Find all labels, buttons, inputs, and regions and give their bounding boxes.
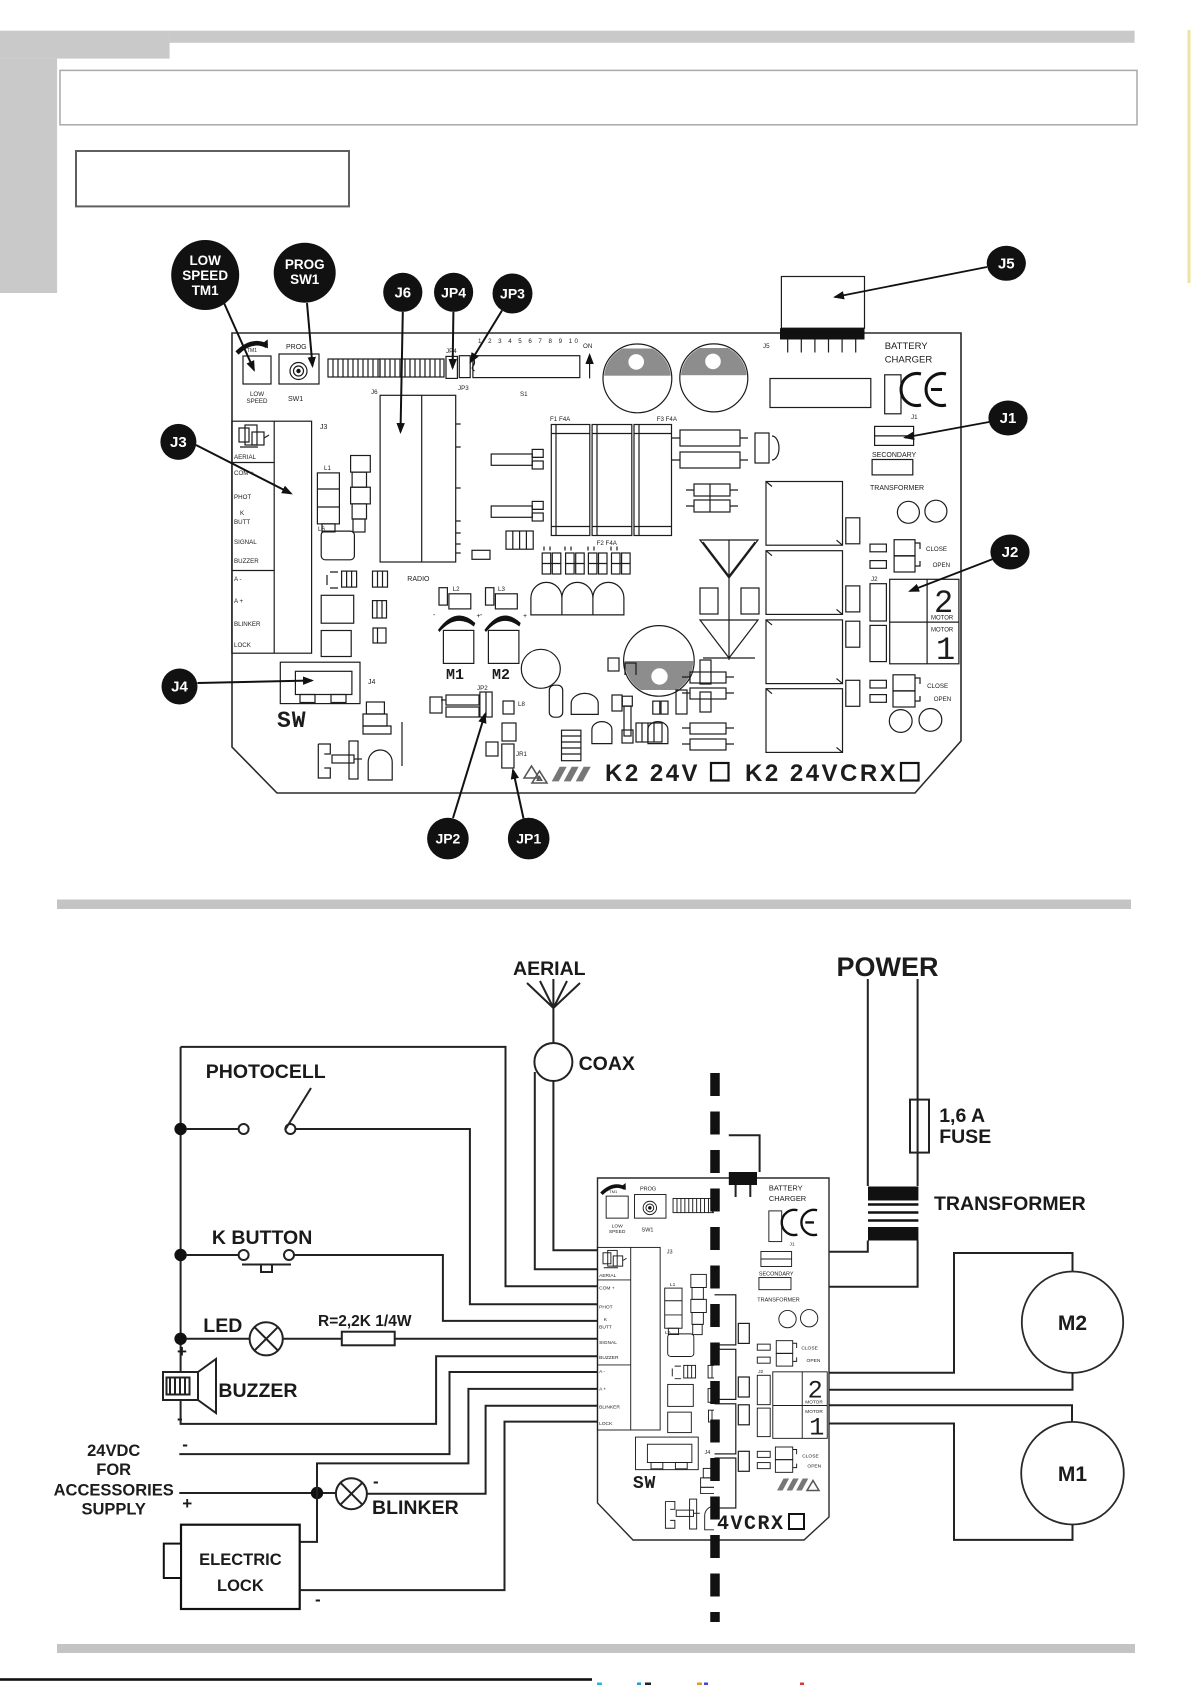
wire resistor to SIGNAL [395, 1338, 599, 1340]
mosfet M1 pad [443, 630, 473, 663]
svg-text:JP4: JP4 [446, 348, 457, 355]
page header grey bar [170, 31, 1135, 43]
wire k button to K BUTT [294, 1255, 599, 1321]
svg-text:MOTOR: MOTOR [931, 616, 954, 622]
wire transformer to PCB [830, 1241, 918, 1287]
svg-text:+: + [523, 613, 527, 620]
mini J5 connector [729, 1172, 757, 1185]
svg-text:AERIAL: AERIAL [513, 958, 586, 980]
small pad [503, 701, 514, 714]
big triangle heatsink [700, 540, 759, 660]
svg-text:PHOT: PHOT [234, 494, 251, 501]
node junction dot [311, 1487, 323, 1499]
svg-text:CLOSE: CLOSE [926, 546, 947, 553]
capacitor stack C [351, 456, 371, 533]
svg-text:K2 24V: K2 24V [605, 760, 700, 787]
svg-text:BUTT: BUTT [234, 519, 250, 526]
callout JP4 [434, 273, 473, 368]
svg-text:J5: J5 [763, 343, 770, 350]
svg-text:ACCESSORIES: ACCESSORIES [54, 1482, 174, 1500]
svg-text:L3: L3 [498, 586, 505, 593]
wire lock to LOCK terminal [300, 1422, 599, 1591]
polarity swoosh 1 [438, 615, 475, 632]
fuse F2 [592, 425, 632, 536]
callout J3 [160, 424, 291, 494]
svg-text:M1: M1 [1058, 1463, 1087, 1486]
svg-text:COAX: COAX [579, 1053, 635, 1075]
svg-text:L8: L8 [518, 701, 525, 708]
title box 2 [76, 151, 349, 206]
node dot photocell [174, 1123, 186, 1135]
relay RL4 [766, 551, 843, 615]
callout LOW SPEED TM1 [171, 240, 254, 370]
svg-text:-: - [373, 1472, 379, 1491]
svg-text:TRANSFORMER: TRANSFORMER [870, 485, 924, 492]
polarity swoosh 2 [484, 615, 520, 632]
24VDC supply labels [54, 1442, 174, 1519]
page header grey block [0, 31, 170, 59]
svg-text:M1: M1 [446, 667, 464, 684]
wire junction to A+ [317, 1389, 599, 1493]
relay jumpers [846, 518, 860, 707]
footer rule [0, 1678, 592, 1681]
jumper JP3 [459, 356, 470, 378]
svg-text:L6: L6 [318, 526, 325, 533]
svg-text:BUZZER: BUZZER [218, 1380, 297, 1402]
header J6 pins (left part) [328, 359, 380, 377]
svg-text:FUSE: FUSE [939, 1126, 991, 1148]
J3 silk labels [234, 454, 261, 649]
svg-text:SIGNAL: SIGNAL [234, 539, 257, 546]
svg-text:A -: A - [234, 576, 242, 583]
close/open jumper top [870, 540, 920, 572]
svg-text:S1: S1 [520, 391, 528, 398]
svg-text:J2: J2 [1002, 544, 1019, 561]
svg-text:OPEN: OPEN [934, 696, 952, 703]
divider bar bottom [57, 1644, 1135, 1653]
svg-text:FOR: FOR [96, 1461, 131, 1479]
callout JP3 [471, 274, 533, 363]
svg-text:LOCK: LOCK [234, 642, 252, 649]
svg-text:J5: J5 [998, 255, 1015, 272]
misc parts right of buzzer [592, 658, 711, 744]
left sidebar grey [0, 59, 57, 293]
K2 24V silk text [605, 760, 919, 787]
coax connector [534, 1043, 572, 1081]
callout J1 [905, 401, 1028, 438]
svg-text:TM1: TM1 [192, 283, 219, 298]
svg-text:JP3: JP3 [458, 385, 469, 392]
svg-text:K BUTTON: K BUTTON [212, 1227, 312, 1249]
svg-text:SW: SW [277, 708, 307, 734]
svg-text:SW1: SW1 [290, 272, 320, 287]
node dot k button [174, 1249, 186, 1261]
mini relay jumpers [738, 1323, 749, 1471]
mini board left half [597, 1182, 731, 1530]
svg-text:+: + [182, 1494, 192, 1513]
divider bar mid [57, 900, 1131, 910]
footer link text (clipped at page bottom) [597, 1683, 804, 1685]
svg-text:K2 24VCRX: K2 24VCRX [745, 760, 898, 787]
callout J5 [835, 246, 1026, 297]
svg-text:TRANSFORMER: TRANSFORMER [934, 1193, 1086, 1215]
svg-text:J1: J1 [911, 414, 918, 421]
close/open jumper bottom [870, 675, 920, 707]
coil stack [562, 730, 581, 761]
callout PROG SW1 [274, 243, 336, 366]
svg-text:PROG: PROG [285, 257, 325, 272]
wire photocell to PHOT [296, 1129, 599, 1304]
callout J6 [383, 273, 422, 432]
svg-text:M2: M2 [492, 667, 510, 684]
svg-text:SPEED: SPEED [247, 398, 269, 405]
svg-text:J1: J1 [1000, 410, 1017, 427]
M2 motor [829, 1253, 1073, 1373]
PCB board outline [232, 333, 961, 793]
M1 motor [829, 1405, 1072, 1422]
svg-text:R=2,2K 1/4W: R=2,2K 1/4W [318, 1313, 412, 1330]
k button switch [186, 1254, 238, 1256]
svg-text:SUPPLY: SUPPLY [81, 1501, 146, 1519]
IC U5 [321, 631, 351, 657]
callout JP2 [427, 714, 485, 859]
svg-text:F2 F4A: F2 F4A [597, 540, 618, 547]
svg-text:ELECTRIC: ELECTRIC [199, 1551, 282, 1569]
CE pad [885, 375, 901, 414]
left supply bus [180, 1047, 182, 1372]
svg-text:PHOTOCELL: PHOTOCELL [206, 1061, 326, 1083]
trimmer TM1 arc arrow [237, 343, 267, 353]
dome [571, 693, 598, 714]
top bus wire to COM+ [181, 1047, 599, 1286]
svg-text:J3: J3 [170, 434, 187, 451]
svg-text:JP3: JP3 [500, 286, 525, 302]
hatched pads [342, 571, 388, 643]
svg-text:-: - [182, 1435, 188, 1454]
svg-text:JR1: JR1 [516, 751, 528, 758]
power line L [867, 979, 869, 1186]
svg-text:4VCRX: 4VCRX [717, 1513, 785, 1536]
LED lamp [186, 1338, 250, 1340]
svg-text:BLINKER: BLINKER [234, 621, 261, 628]
wire blinker to BLINKER terminal [367, 1406, 599, 1494]
buzzer circle [521, 649, 560, 688]
callout JP1 [508, 770, 550, 859]
svg-text:ON: ON [583, 343, 592, 350]
svg-text:JP1: JP1 [516, 831, 541, 847]
mount holes bottom [889, 710, 912, 733]
callout J2 [910, 535, 1030, 592]
hatched block [506, 531, 533, 549]
svg-text:SW1: SW1 [288, 396, 303, 403]
screw terminal 2 [491, 501, 543, 521]
svg-text:J2: J2 [871, 576, 878, 583]
svg-text:J3: J3 [320, 424, 328, 431]
fuse F 1,6A [910, 1100, 929, 1153]
warning triangles logo [524, 766, 547, 783]
transformer T1 [868, 1187, 918, 1241]
svg-text:RADIO: RADIO [407, 576, 430, 583]
relay RL2 [766, 689, 843, 753]
svg-text:LOW: LOW [189, 253, 221, 268]
svg-text:M2: M2 [1058, 1312, 1087, 1335]
blinker lamp [336, 1478, 367, 1509]
svg-text:J6: J6 [394, 284, 411, 301]
relay RL1 [766, 620, 843, 684]
svg-text:1,6 A: 1,6 A [939, 1105, 985, 1127]
mount holes [897, 501, 919, 523]
svg-text:SPEED: SPEED [182, 268, 228, 283]
small pad [472, 550, 490, 559]
mini board outline [598, 1178, 830, 1540]
svg-text:LOW: LOW [250, 391, 264, 398]
relay RL3 [766, 482, 843, 546]
wire buzzer to BUZZER terminal [181, 1356, 599, 1424]
svg-text:LOCK: LOCK [217, 1577, 264, 1595]
svg-text:AERIAL: AERIAL [234, 454, 257, 461]
svg-text:JP2: JP2 [435, 831, 460, 847]
svg-text:JP4: JP4 [441, 284, 466, 300]
svg-text:+: + [177, 1342, 187, 1361]
svg-text:J4: J4 [171, 679, 188, 696]
mosfet M2 pad [488, 630, 519, 663]
svg-text:TM1: TM1 [247, 348, 257, 354]
aerial symbol [527, 979, 580, 1043]
CE mark [901, 374, 946, 406]
resistor bars [430, 695, 479, 717]
svg-text:F3 F4A: F3 F4A [657, 416, 678, 423]
wire junction down to lock [300, 1493, 317, 1542]
capsule [549, 685, 562, 717]
diode pair block [686, 484, 738, 512]
jumper JP1 [486, 742, 498, 756]
dome diodes [531, 582, 624, 615]
svg-text:F1 F4A: F1 F4A [550, 416, 571, 423]
callout J4 [162, 669, 313, 705]
svg-text:BUZZER: BUZZER [234, 558, 259, 565]
header J6 pins (right part) [380, 359, 444, 377]
diode ladder right [682, 672, 734, 750]
svg-text:JP2: JP2 [477, 685, 488, 692]
svg-text:BLINKER: BLINKER [372, 1497, 459, 1519]
svg-text:CHARGER: CHARGER [885, 355, 933, 366]
svg-text:-: - [315, 1590, 321, 1609]
connector J3 terminal strip [232, 421, 312, 653]
connector J4 (SW) [280, 662, 360, 703]
coax wires to PCB [535, 1072, 599, 1269]
IC U3 [321, 531, 354, 560]
svg-text:BATTERY: BATTERY [885, 341, 929, 352]
svg-text:POWER: POWER [837, 952, 939, 982]
svg-text:L1: L1 [324, 465, 331, 472]
title box 1 [60, 70, 1137, 124]
svg-text:J4: J4 [368, 679, 376, 686]
svg-text:CLOSE: CLOSE [927, 683, 948, 690]
diode row D1-D4 [542, 547, 630, 575]
svg-text:L2: L2 [453, 586, 460, 593]
svg-text:J6: J6 [371, 389, 378, 396]
svg-text:24VDC: 24VDC [87, 1442, 140, 1460]
svg-text:LED: LED [203, 1315, 242, 1337]
IC U4 [321, 595, 354, 623]
slash logo [552, 767, 591, 782]
mini board right half [706, 1184, 827, 1508]
svg-text:OPEN: OPEN [933, 562, 951, 569]
aerial icon on J3 [239, 425, 269, 447]
mini relay slivers [706, 1295, 736, 1508]
small parts bottom-left [318, 702, 402, 780]
svg-text:PROG: PROG [286, 344, 307, 351]
photocell switch [186, 1128, 238, 1130]
yellow edge strip [1188, 30, 1191, 283]
screw terminal 1 [491, 449, 543, 469]
svg-text:A +: A + [234, 598, 244, 605]
rectifier bridge blocks [672, 430, 779, 468]
power line N [917, 979, 919, 1186]
dip switch S1 [473, 356, 580, 378]
dashed separator line [710, 1073, 720, 1622]
mini logo [777, 1479, 808, 1491]
svg-text:1: 1 [936, 632, 955, 669]
long pad [770, 379, 871, 408]
node dot led [174, 1333, 186, 1345]
bracket marks [327, 572, 338, 588]
electric lock box [181, 1525, 300, 1609]
svg-text:SECONDARY: SECONDARY [872, 452, 917, 459]
